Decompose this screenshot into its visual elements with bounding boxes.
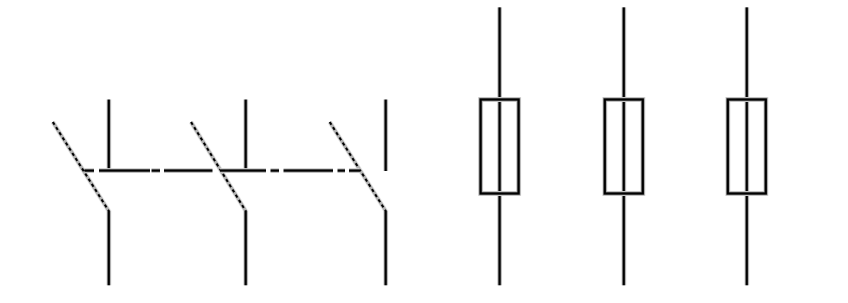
switch pole 3 blade xyxy=(330,122,386,211)
switch pole 2 bottom terminal wire xyxy=(243,211,248,286)
fuse F3 body xyxy=(728,100,766,194)
mechanical linkage long dash 7 xyxy=(284,168,334,173)
mechanical linkage long dash 4 xyxy=(164,168,213,173)
fuse F2 body xyxy=(605,100,643,194)
fuse F2 wire xyxy=(621,7,626,285)
switch pole 2 top terminal wire xyxy=(243,100,248,172)
switch pole 1 bottom terminal wire xyxy=(106,211,111,286)
mechanical linkage dot 1 xyxy=(85,168,95,173)
fuse F3 wire xyxy=(744,7,749,285)
mechanical linkage dot 8 xyxy=(338,168,346,173)
mechanical linkage long dash 9 (to pole 3 blade) xyxy=(349,168,361,173)
switch pole 3 top terminal wire xyxy=(383,100,388,172)
mechanical linkage long dash 5 (through pole 2 tap) xyxy=(220,168,266,173)
mechanical linkage dot 6 xyxy=(271,168,280,173)
fuse F1 wire xyxy=(497,7,502,285)
fuse F1 body xyxy=(481,100,519,194)
mechanical linkage long dash 2 (through pole 1 tap) xyxy=(99,168,150,173)
switch pole 2 blade xyxy=(191,122,246,211)
switch pole 1 blade xyxy=(53,122,109,211)
switch pole 3 bottom terminal wire xyxy=(383,211,388,286)
mechanical linkage dot 3 xyxy=(152,168,161,173)
switch pole 1 top terminal wire xyxy=(106,100,111,172)
